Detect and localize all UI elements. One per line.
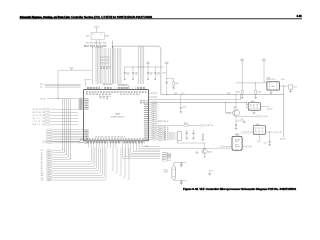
svg-text:(C) CLK_5P: (C) CLK_5P <box>274 132 282 134</box>
svg-text:(P) SCLK_IN: (P) SCLK_IN <box>33 115 45 117</box>
FL401 bottom wire <box>174 179 187 181</box>
svg-text:Q402: Q402 <box>208 152 212 154</box>
U403 top-left wire <box>264 81 267 83</box>
bottom-left address bus rows and tags <box>41 148 129 182</box>
U408 right long pin nets <box>157 120 169 141</box>
U408 bottom pin stubs and labels <box>87 141 144 148</box>
verticals dropping from clock bus <box>138 46 144 84</box>
ground under R406 <box>173 85 175 87</box>
pullup resistor row <box>84 45 106 47</box>
VCC rail left <box>241 60 244 62</box>
svg-text:IO: IO <box>157 104 158 106</box>
svg-text:IO: IO <box>157 110 158 112</box>
wire vertical x58 <box>57 70 59 98</box>
svg-text:GP3: GP3 <box>163 138 166 140</box>
vertical bus wires x62-70 <box>63 99 71 160</box>
J401 net tags <box>163 132 175 140</box>
wire linking R412 R413 <box>117 84 119 86</box>
svg-text:FL401: FL401 <box>164 170 168 172</box>
svg-text:455kHz: 455kHz <box>164 172 169 174</box>
FL401 top wire <box>174 162 187 165</box>
connector J401 box <box>177 132 181 140</box>
svg-text:C405: C405 <box>162 72 166 74</box>
svg-text:IO: IO <box>157 106 158 108</box>
resistor R420 <box>80 141 83 143</box>
IC U405 body <box>248 103 260 111</box>
U406 right pin wire and tag <box>266 131 273 133</box>
resistor array RP401 <box>101 56 109 64</box>
resistor R419 <box>168 157 171 158</box>
ground mid-bottom <box>196 152 199 153</box>
VR401 bottom stub <box>236 150 238 152</box>
VCC rail right <box>262 60 265 62</box>
page number 4-15 <box>296 15 302 18</box>
wire net B y102.5 <box>149 102 247 104</box>
svg-text:0.1uF: 0.1uF <box>181 93 185 95</box>
svg-text:C401: C401 <box>126 72 130 74</box>
svg-text:.1uF: .1uF <box>126 74 129 76</box>
svg-text:R440: R440 <box>145 146 149 148</box>
svg-text:GP1: GP1 <box>163 134 166 136</box>
svg-text:VR401: VR401 <box>235 135 240 137</box>
svg-text:IO: IO <box>157 116 158 118</box>
VR401 right wire and tag <box>242 146 246 148</box>
svg-text:Figure 8-49. VHF Controller Mi: Figure 8-49. VHF Controller Microprocess… <box>183 188 297 191</box>
capacitor C420 box <box>289 85 293 89</box>
junction dot above U408 <box>122 83 125 86</box>
svg-text:Q401: Q401 <box>233 107 237 109</box>
capacitor C405 <box>166 78 168 81</box>
svg-text:Y1: Y1 <box>92 34 94 36</box>
suppressor VR401 body <box>232 136 242 150</box>
left net tags near FL401 <box>162 153 171 161</box>
svg-text:CTS_IN_5P: CTS_IN_5P <box>33 121 45 123</box>
bottom-right net tags column <box>162 152 167 161</box>
svg-text:IO: IO <box>157 114 158 116</box>
wire VCC feed to bus A <box>166 90 168 95</box>
svg-text:.1uF: .1uF <box>149 74 152 76</box>
svg-text:R409: R409 <box>227 93 231 95</box>
svg-text:IO: IO <box>157 112 158 114</box>
cap rail wire <box>125 66 164 68</box>
ground stub right of FL401 <box>210 170 213 173</box>
net tag above Y401 <box>95 26 99 28</box>
VCC tag above cap rail <box>146 63 149 65</box>
Q401 collector wire up <box>235 95 237 109</box>
RP401 labels <box>100 66 102 67</box>
svg-text:4-15: 4-15 <box>297 15 303 18</box>
wire net A y94.7 <box>161 94 284 96</box>
wire RESET upper-left horizontal <box>58 69 92 71</box>
VR401 left wire <box>224 146 232 148</box>
svg-text:R401 R402 R403 R404 R405: R401 R402 R403 R404 R405 <box>86 42 107 44</box>
svg-text:(C) E_5P: (C) E_5P <box>280 139 286 141</box>
svg-text:R406: R406 <box>175 83 179 85</box>
svg-text:U405: U405 <box>251 101 255 103</box>
svg-text:.1uF: .1uF <box>157 74 160 76</box>
U406 bottom stub <box>259 134 261 140</box>
wire net C y99.7 <box>149 95 241 100</box>
svg-text:.1uF: .1uF <box>134 74 137 76</box>
elbow wire top-left of U408 <box>85 79 92 81</box>
svg-text:(P) SCI_RX_5P: (P) SCI_RX_5P <box>33 112 45 114</box>
Q401 base wire <box>226 103 227 113</box>
ground under Q401 <box>236 120 244 122</box>
svg-text:C416: C416 <box>174 93 178 95</box>
Q401 emitter wire down <box>235 117 237 121</box>
capacitor C414 with ground <box>180 162 182 163</box>
svg-text:(C) B_5P: (C) B_5P <box>267 109 273 111</box>
resistor R414 net row <box>157 125 184 127</box>
header rule <box>20 17 303 20</box>
Q402 emitter stub <box>204 154 206 157</box>
U403 ground stub <box>270 90 272 92</box>
svg-text:R425: R425 <box>281 79 285 81</box>
svg-text:U403: U403 <box>271 86 275 88</box>
wire to U403 <box>236 82 267 84</box>
long vertical wire right x283.8 <box>283 86 285 137</box>
ground under C420 <box>290 89 292 91</box>
svg-text:R420: R420 <box>80 139 84 141</box>
Q401 emitter tag <box>238 115 257 117</box>
U408 right pin wires and net tags <box>149 92 159 140</box>
bus elbows from net row to verticals <box>62 98 64 100</box>
U408 lower-left pin wires and net tags <box>47 129 84 144</box>
page header text <box>20 16 71 19</box>
svg-text:PD1: PD1 <box>152 139 155 141</box>
svg-text:C412: C412 <box>264 143 268 145</box>
IC U403 body <box>267 82 279 90</box>
row 1 wire with resistor R420 <box>47 141 80 143</box>
svg-text:MC68HC11F1CFU: MC68HC11F1CFU <box>111 117 125 119</box>
VCC feed right of rail <box>165 63 168 65</box>
svg-text:C420: C420 <box>293 86 297 88</box>
figure caption <box>183 188 297 191</box>
svg-text:C408: C408 <box>182 107 186 109</box>
left net tag rows mid <box>33 108 79 126</box>
resistor R412 above U408 <box>119 84 122 85</box>
wire bus to Q402 <box>177 140 204 149</box>
svg-text:C402: C402 <box>134 72 138 74</box>
capacitor C412 to ground <box>269 132 271 141</box>
svg-text:U406: U406 <box>256 124 260 126</box>
U408 upper-left pin wires and net tags <box>79 98 83 110</box>
svg-text:(C) K_5P: (C) K_5P <box>261 116 267 118</box>
Y401 bottom stubs <box>96 40 98 45</box>
U408 left inside pin numbers <box>84 98 88 99</box>
resistor R413 above U408 <box>124 84 127 85</box>
svg-text:B+: B+ <box>250 146 252 148</box>
svg-text:C404: C404 <box>157 72 161 74</box>
resistor R418 <box>168 154 171 155</box>
resistor R416 with ground <box>202 134 203 137</box>
capacitor C408 on net A <box>179 93 182 96</box>
resistor R410 below <box>241 83 243 90</box>
resistor R411 below <box>255 83 257 90</box>
svg-text:Y401: Y401 <box>86 36 90 38</box>
U405 left pin wires <box>247 104 249 106</box>
clock bus wire to right side <box>113 46 161 95</box>
bottom-right pin elbow wires <box>123 145 160 159</box>
svg-text:U403: U403 <box>267 77 271 79</box>
svg-text:R411: R411 <box>258 92 262 94</box>
U406 left pin wire <box>241 131 253 133</box>
svg-text:R414: R414 <box>184 123 188 125</box>
U408 top inside pin numbers <box>86 91 88 92</box>
resistor R406 branch <box>167 78 174 81</box>
transistor Q401 <box>233 110 240 117</box>
resonator FL401 body <box>172 165 176 180</box>
vertical bus x104-121 to U408 top <box>104 48 121 84</box>
svg-text:SQ_DT_5P: SQ_DT_5P <box>33 118 45 120</box>
microprocessor U408 body <box>84 90 149 141</box>
capacitor C415 with ground <box>180 179 182 182</box>
verticals from resistor row to U408 <box>93 47 103 84</box>
net (P) DATA wire upper-left <box>47 98 78 100</box>
capacitor C411 with ground <box>193 130 195 133</box>
capacitor C409 under Q401 <box>235 121 237 124</box>
svg-text:R410: R410 <box>236 92 240 94</box>
crystal block Y401 box <box>91 32 104 39</box>
svg-text:E: E <box>101 34 102 36</box>
U408 top pin stubs and labels <box>87 84 146 90</box>
svg-text:MISO_B_5P: MISO_B_5P <box>33 124 45 126</box>
U405 ground stub <box>253 110 255 112</box>
svg-text:GP0: GP0 <box>163 132 166 134</box>
svg-text:IO: IO <box>157 118 158 120</box>
junction dots under resistor row <box>92 46 102 49</box>
svg-text:(C) RX_5P: (C) RX_5P <box>224 148 231 150</box>
U405 right pin wire <box>261 105 270 107</box>
svg-text:C403: C403 <box>149 72 153 74</box>
transistor Q402 <box>202 149 207 154</box>
svg-text:(P) SCI_TX_5P: (P) SCI_TX_5P <box>33 109 45 111</box>
U408 right inside pin numbers <box>144 104 148 105</box>
long vertical wire x112.6 <box>112 41 114 85</box>
svg-text:GND: GND <box>241 119 244 121</box>
U403 right pin wire <box>279 85 288 87</box>
svg-text:GP2: GP2 <box>163 136 166 138</box>
resistor R408 at Q401 base <box>227 112 230 113</box>
svg-text:CLK: CLK <box>95 26 98 28</box>
ground under R411 <box>255 94 257 97</box>
U408 right inside pin names upper <box>140 100 142 101</box>
IC U406 body <box>253 126 265 135</box>
ground under R410 <box>241 94 243 97</box>
VR401 top wire <box>236 133 238 136</box>
svg-text:IO: IO <box>157 108 158 110</box>
dotted wire from VR401 top <box>237 133 251 135</box>
svg-text:C413: C413 <box>257 141 261 143</box>
left mid net rows to U408 <box>40 84 81 89</box>
svg-text:(C) OPT_5P: (C) OPT_5P <box>205 125 213 127</box>
U408 bottom inside pin numbers <box>95 136 97 137</box>
capacitor C410 with ground <box>186 130 188 133</box>
decoupling capacitors C401-C404 <box>124 67 161 80</box>
svg-text:R433: R433 <box>105 36 109 38</box>
long net wire to (C) tag <box>160 147 219 149</box>
